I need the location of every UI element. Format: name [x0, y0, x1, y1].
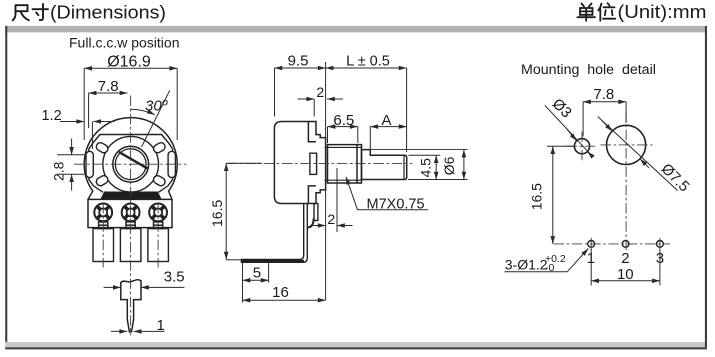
- housing rectangle: [88, 199, 172, 227]
- pin hole 2: [622, 241, 629, 248]
- rear terminal hook: [307, 219, 313, 228]
- page title right: glyph 位: [598, 3, 615, 21]
- pin tip detail with break line: [121, 280, 141, 332]
- page title left: glyph 尺: [13, 5, 29, 20]
- shaft inner circle: [115, 149, 146, 180]
- svg-text:2.8: 2.8: [51, 161, 67, 181]
- bushing thread crest lines: [325, 147, 362, 180]
- side lug capsule right: [168, 151, 175, 177]
- shaft outer ring: [113, 146, 149, 182]
- svg-text:Mounting hole detail: Mounting hole detail: [521, 62, 656, 78]
- svg-text:7.8: 7.8: [593, 86, 614, 103]
- svg-text:L ± 0.5: L ± 0.5: [346, 54, 390, 70]
- page title left: glyph 寸: [33, 4, 49, 20]
- long extension line: [325, 62, 327, 300]
- svg-text:2: 2: [621, 250, 629, 267]
- svg-text:4.5: 4.5: [417, 158, 433, 178]
- body face pocket top: [308, 122, 316, 142]
- leg 2: [120, 229, 140, 262]
- terminal eyelet 1: [94, 204, 112, 222]
- svg-text:Full.c.c.w position: Full.c.c.w position: [69, 35, 179, 51]
- middle view centerline: [227, 163, 413, 165]
- notch capsule lower-left: [95, 174, 109, 187]
- notch capsule lower-right: [152, 174, 166, 187]
- shaft slot: [119, 152, 148, 169]
- svg-text:3.5: 3.5: [164, 269, 185, 286]
- leg 3 centerline: [157, 203, 159, 268]
- side lug capsule left: [86, 151, 93, 177]
- center boss on mounting face: [310, 153, 317, 174]
- svg-text:1.2: 1.2: [42, 108, 62, 124]
- svg-text:Ø6: Ø6: [441, 156, 457, 175]
- svg-text:2: 2: [327, 211, 335, 227]
- svg-text:9.5: 9.5: [288, 53, 309, 70]
- svg-text:16: 16: [272, 284, 289, 301]
- svg-text:3-Ø1.2: 3-Ø1.2: [505, 256, 548, 272]
- chamfer octagon left side: [89, 143, 173, 193]
- leg 1 centerline: [102, 203, 104, 268]
- big hole crosshair: [601, 144, 653, 146]
- small hole crosshair: [567, 145, 598, 147]
- dark recess band above housing: [101, 192, 161, 199]
- crimp collar 1: [99, 222, 108, 229]
- svg-text:16.5: 16.5: [529, 183, 545, 210]
- body face pocket bottom: [308, 186, 316, 203]
- svg-text:(Unit):mm: (Unit):mm: [618, 2, 707, 22]
- notch capsule upper-right: [152, 141, 166, 154]
- svg-text:16.5: 16.5: [209, 200, 225, 227]
- pin hole ticks: [591, 238, 660, 250]
- chamfer octagon top chord: [93, 135, 169, 143]
- right view dimensions: [505, 86, 693, 285]
- shaft end chamfer line: [403, 155, 405, 179]
- horizontal centerline: [74, 163, 187, 165]
- svg-text:Ø7.5: Ø7.5: [658, 160, 693, 195]
- rear solder lug: [314, 204, 318, 221]
- leg 1: [93, 229, 114, 262]
- crimp collar 3: [154, 222, 163, 229]
- threaded bushing M7: [328, 145, 362, 183]
- terminal eyelet 3: [149, 204, 167, 222]
- shaft centerline: [227, 163, 413, 165]
- big hole diameter 7.5: [607, 125, 646, 164]
- leg 3: [148, 229, 169, 262]
- crimp collar 2: [126, 222, 135, 229]
- mounting bracket L-shape: [241, 204, 307, 263]
- notch capsule upper-left: [95, 141, 109, 154]
- svg-text:5: 5: [253, 265, 261, 282]
- small hole diameter 3: [574, 139, 589, 154]
- terminal eyelet 2: [122, 204, 140, 222]
- pin hole 1: [588, 241, 595, 248]
- svg-text:7.8: 7.8: [98, 78, 119, 95]
- svg-text:2: 2: [316, 84, 324, 100]
- pot body side profile with stepped face: [274, 122, 325, 204]
- thread relief line: [356, 145, 358, 183]
- pin holes centerline: [554, 243, 671, 245]
- shaft with flat: [362, 150, 407, 180]
- middle view dimensions: [243, 53, 468, 303]
- vertical centerline: [130, 96, 132, 336]
- body outer circle with housing transition: [84, 118, 177, 200]
- bracket foot dark strip: [242, 260, 304, 262]
- page title right: glyph 单: [578, 4, 596, 21]
- svg-text:(Dimensions): (Dimensions): [50, 3, 166, 23]
- pin hole 3: [657, 241, 664, 248]
- svg-text:Ø3: Ø3: [549, 95, 575, 121]
- right view centerlines: [554, 112, 671, 253]
- collar circle: [103, 136, 159, 192]
- left view centerlines: [74, 96, 187, 336]
- left view dimensions: [42, 54, 263, 335]
